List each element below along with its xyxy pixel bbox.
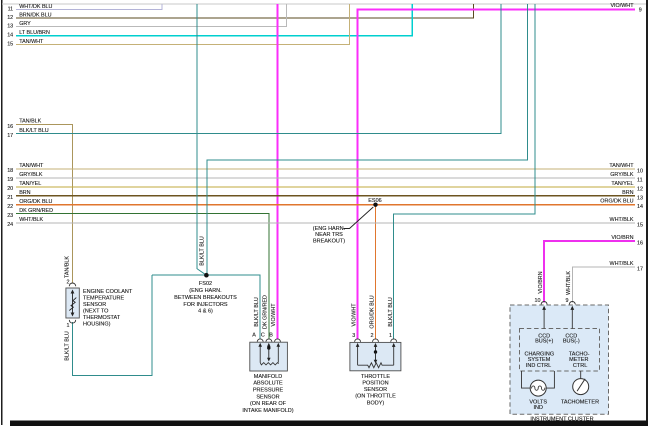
label 17 BLK/LT BLU left [7, 128, 49, 139]
manifold absolute pressure sensor [242, 332, 293, 414]
label 19 GRY/BLK left [7, 172, 43, 183]
wire BLK/LT BLU to TPS pin 1 [394, 4, 535, 340]
svg-text:HOUSING): HOUSING) [83, 321, 111, 327]
svg-text:WHT/BLK: WHT/BLK [566, 271, 572, 295]
wire 18-10 TAN/WHT [16, 168, 635, 170]
wire 12 BRN/DK BLU [16, 4, 474, 18]
node ES06 [373, 203, 377, 207]
svg-text:NEAR TRS: NEAR TRS [315, 232, 343, 238]
instrument cluster [510, 298, 609, 422]
svg-text:WHT/BLK: WHT/BLK [610, 217, 634, 223]
svg-text:BRN/DK BLU: BRN/DK BLU [19, 13, 51, 19]
svg-text:12: 12 [637, 186, 643, 192]
svg-text:10: 10 [637, 169, 643, 175]
svg-text:ABSOLUTE: ABSOLUTE [253, 381, 283, 387]
wire 22-14 ORG/DK BLU [16, 204, 635, 206]
connector arc TPS pin 1 [391, 339, 397, 342]
TPS sensor body [350, 342, 401, 370]
svg-text:VIO/WHT: VIO/WHT [610, 3, 634, 9]
svg-text:9: 9 [566, 298, 569, 304]
label 18 TAN/WHT left [7, 163, 44, 174]
svg-text:BUS(+): BUS(+) [535, 339, 553, 345]
svg-text:THERMOSTAT: THERMOSTAT [83, 315, 121, 321]
svg-text:POSITION: POSITION [362, 381, 388, 387]
svg-text:(ENG HARN.: (ENG HARN. [189, 288, 222, 294]
svg-text:ORG/DK BLU: ORG/DK BLU [19, 199, 52, 205]
svg-text:ORG/DK BLU: ORG/DK BLU [370, 295, 376, 328]
svg-text:13: 13 [637, 195, 643, 201]
svg-text:10: 10 [535, 298, 541, 304]
throttle position sensor [350, 333, 401, 407]
svg-text:13: 13 [7, 24, 13, 30]
svg-text:(ON THROTTLE: (ON THROTTLE [355, 394, 396, 400]
wire ES06 branch to TPS pin 2 [375, 205, 377, 340]
wire 17 WHT/BLK to cluster pin 9 [572, 267, 635, 303]
svg-text:ENGINE COOLANT: ENGINE COOLANT [83, 289, 133, 295]
label 9 VIO/WHT right [610, 3, 641, 14]
svg-text:LT BLU/BRN: LT BLU/BRN [19, 30, 50, 36]
connector arc cluster pin 10 [541, 302, 547, 305]
svg-text:TAN/YEL: TAN/YEL [611, 181, 633, 187]
connector arc TPS pin 2 [373, 339, 379, 342]
svg-text:VIO/WHT: VIO/WHT [351, 303, 357, 327]
svg-text:MANIFOLD: MANIFOLD [254, 374, 282, 380]
wire 15 TAN/WHT [16, 4, 349, 44]
wire FS02 slant [197, 269, 207, 276]
label 15 TAN/WHT left [7, 39, 44, 48]
label 16 VIO/BRN right [611, 235, 643, 247]
volts indicator bulb [530, 380, 546, 396]
svg-text:IND: IND [533, 405, 543, 411]
svg-text:2: 2 [371, 333, 374, 339]
svg-text:FS02: FS02 [199, 281, 212, 287]
wire 19-11 GRY/BLK [16, 177, 635, 179]
svg-text:BETWEEN BREAKOUTS: BETWEEN BREAKOUTS [174, 295, 237, 301]
svg-text:PRESSURE: PRESSURE [253, 388, 284, 394]
connector arc TPS pin 3 [355, 339, 361, 342]
svg-text:17: 17 [7, 133, 13, 139]
wire cluster pin 9 internal [570, 306, 574, 329]
wire 21-13 BRN [16, 195, 635, 197]
svg-text:BUS(-): BUS(-) [563, 339, 580, 345]
connector arc MAP pin C [266, 339, 272, 342]
svg-text:ES06: ES06 [368, 198, 381, 204]
label 16 TAN/BLK left [7, 119, 41, 130]
svg-text:(ON REAR OF: (ON REAR OF [250, 401, 287, 407]
border left [1, 0, 3, 425]
label 23 DK GRN/RED left [7, 208, 53, 219]
svg-text:21: 21 [7, 195, 13, 201]
svg-text:18: 18 [7, 168, 13, 174]
svg-text:ORG/DK BLU: ORG/DK BLU [600, 199, 633, 205]
svg-text:TAN/YEL: TAN/YEL [19, 181, 41, 187]
wire volts indicator left lead [522, 371, 531, 388]
svg-text:1: 1 [389, 333, 392, 339]
svg-text:BLK/LT BLU: BLK/LT BLU [19, 128, 49, 134]
wire volts indicator right lead [546, 371, 554, 388]
wire 20-12 TAN/YEL [16, 186, 635, 188]
svg-text:TAN/BLK: TAN/BLK [65, 256, 71, 278]
label 22 ORG/DK BLU left [7, 199, 52, 210]
svg-text:16: 16 [637, 240, 643, 246]
border top [2, 4, 648, 5]
engine coolant temperature sensor [66, 280, 133, 329]
wire 14 LT BLU/BRN [16, 4, 412, 36]
wire 16 VIO/BRN to cluster pin 10 [544, 241, 635, 303]
svg-text:WHT/BLK: WHT/BLK [19, 217, 43, 223]
svg-text:15: 15 [637, 222, 643, 228]
svg-text:9: 9 [639, 8, 642, 14]
label 10 TAN/WHT right [609, 163, 643, 175]
svg-text:TACHOMETER: TACHOMETER [561, 400, 599, 406]
wire 13 GRY [16, 4, 287, 27]
ECT sensor body [66, 288, 79, 318]
node FS02 [204, 273, 209, 278]
svg-text:IND CTRL: IND CTRL [526, 363, 551, 369]
svg-text:BLK/LT BLU: BLK/LT BLU [199, 236, 205, 266]
svg-text:BLK/LT BLU: BLK/LT BLU [254, 297, 260, 327]
svg-text:14: 14 [637, 204, 643, 210]
connector arc MAP pin A [257, 339, 263, 342]
label 17 WHT/BLK right [610, 261, 643, 273]
instrument cluster dashed box [510, 305, 609, 414]
svg-text:16: 16 [7, 124, 13, 130]
svg-text:DK GRN/RED: DK GRN/RED [19, 208, 53, 214]
svg-text:11: 11 [8, 7, 14, 13]
inner dashed box CCD bus module [520, 329, 600, 372]
TPS potentiometer element [356, 343, 396, 368]
label 13 BRN right [622, 190, 643, 202]
label 11 GRY/BLK right [610, 172, 642, 184]
label 20 TAN/YEL left [7, 181, 41, 192]
svg-text:BODY): BODY) [367, 401, 385, 407]
label 14 LT BLU/BRN left [7, 30, 50, 39]
svg-text:VIO/WHT: VIO/WHT [271, 303, 277, 327]
svg-text:BRN: BRN [19, 190, 30, 196]
svg-text:19: 19 [7, 177, 13, 183]
svg-text:SENSOR: SENSOR [256, 394, 279, 400]
svg-text:15: 15 [7, 41, 13, 47]
svg-text:GRY: GRY [19, 21, 31, 27]
svg-text:A: A [252, 332, 256, 338]
svg-text:TAN/WHT: TAN/WHT [19, 39, 44, 45]
label 12 TAN/YEL right [611, 181, 643, 193]
label 14 ORG/DK BLU right [600, 199, 643, 211]
svg-text:22: 22 [7, 204, 13, 210]
svg-text:TAN/BLK: TAN/BLK [19, 119, 41, 125]
wire 11 WHT/DK BLU [16, 4, 162, 10]
wire VIO/WHT to MAP pin B [277, 4, 279, 340]
svg-text:B: B [269, 332, 273, 338]
svg-text:WHT/BLK: WHT/BLK [610, 261, 634, 267]
svg-text:BLK/LT BLU: BLK/LT BLU [388, 297, 394, 327]
svg-text:VIO/BRN: VIO/BRN [611, 235, 633, 241]
wire BLK/LT BLU top right loop to FS02 [207, 4, 528, 275]
svg-text:24: 24 [7, 222, 13, 228]
svg-text:1: 1 [67, 323, 70, 329]
wire 9 VIO/WHT to TPS pin 3 [358, 9, 635, 339]
connector arc cluster pin 9 [569, 302, 575, 305]
border right [646, 0, 648, 422]
wire ECT pin 1 loop [73, 275, 152, 375]
MAP potentiometer element [258, 343, 280, 365]
connector arc ECT pin 1 [69, 320, 75, 323]
svg-text:SENSOR: SENSOR [364, 387, 387, 393]
label 24 WHT/BLK left [7, 217, 43, 228]
node ES06 label and pointer [313, 198, 382, 245]
svg-text:TAN/WHT: TAN/WHT [609, 163, 634, 169]
wire 17 BLK/LT BLU [16, 4, 501, 134]
svg-text:WHT/DK BLU: WHT/DK BLU [19, 4, 52, 10]
svg-text:3: 3 [352, 333, 355, 339]
svg-text:23: 23 [7, 213, 13, 219]
svg-text:14: 14 [7, 33, 13, 39]
wire 23 DK GRN/RED to MAP pin C [16, 214, 269, 340]
svg-text:INTAKE MANIFOLD): INTAKE MANIFOLD) [242, 408, 293, 414]
node FS02 label [174, 281, 237, 315]
wire cluster pin 10 internal [542, 306, 546, 329]
label 15 WHT/BLK right [610, 217, 643, 229]
label 11 WHT/DK BLU left [8, 4, 53, 13]
wire tachometer lead [580, 371, 582, 379]
label 13 GRY left [7, 21, 31, 30]
svg-text:12: 12 [7, 15, 13, 21]
svg-text:VIO/BRN: VIO/BRN [538, 271, 544, 293]
connector arc MAP pin B [275, 339, 281, 342]
MAP sensor body [250, 342, 288, 371]
thermistor symbol [69, 290, 76, 317]
label 21 BRN left [7, 190, 30, 201]
svg-text:(NEXT TO: (NEXT TO [83, 308, 109, 314]
svg-text:BREAKOUT): BREAKOUT) [313, 239, 345, 245]
wire 16 TAN/BLK to ECT pin 2 [16, 125, 73, 283]
wire BLK/LT BLU from top to FS02 [196, 4, 198, 269]
svg-text:20: 20 [7, 186, 13, 192]
svg-text:TAN/WHT: TAN/WHT [19, 163, 44, 169]
svg-text:INSTRUMENT CLUSTER: INSTRUMENT CLUSTER [530, 416, 593, 422]
svg-text:SENSOR: SENSOR [83, 302, 106, 308]
border bottom bar [10, 421, 648, 426]
svg-text:GRY/BLK: GRY/BLK [610, 172, 634, 178]
svg-text:THROTTLE: THROTTLE [361, 374, 390, 380]
connector arc ECT pin 2 [69, 283, 75, 286]
svg-text:GRY/BLK: GRY/BLK [19, 172, 43, 178]
svg-text:TEMPERATURE: TEMPERATURE [83, 295, 124, 301]
svg-text:17: 17 [637, 266, 643, 272]
wire 24-15 WHT/BLK [16, 222, 635, 224]
tachometer gauge [573, 379, 589, 395]
svg-text:DK GRN/RED: DK GRN/RED [262, 295, 268, 329]
svg-text:BRN: BRN [622, 190, 633, 196]
label 12 BRN/DK BLU left [7, 13, 51, 22]
svg-text:FOR INJECTORS: FOR INJECTORS [183, 302, 228, 308]
svg-text:CTRL: CTRL [573, 363, 587, 369]
wire FS02 horizontal to MAP pin A [152, 275, 260, 339]
svg-text:11: 11 [637, 177, 643, 183]
svg-text:(ENG HARN.: (ENG HARN. [313, 226, 346, 232]
svg-text:C: C [261, 332, 265, 338]
svg-text:BLK/LT BLU: BLK/LT BLU [65, 331, 71, 361]
svg-text:4 & 6): 4 & 6) [198, 309, 213, 315]
